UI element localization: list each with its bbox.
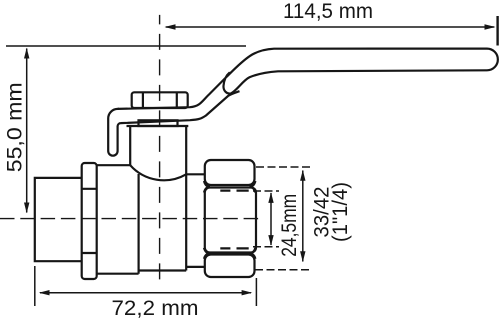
svg-text:(1"1/4): (1"1/4)	[329, 182, 352, 242]
svg-text:72,2 mm: 72,2 mm	[112, 297, 199, 320]
svg-text:55,0 mm: 55,0 mm	[4, 82, 27, 172]
svg-text:24,5mm: 24,5mm	[278, 194, 301, 257]
svg-text:114,5 mm: 114,5 mm	[283, 0, 373, 23]
